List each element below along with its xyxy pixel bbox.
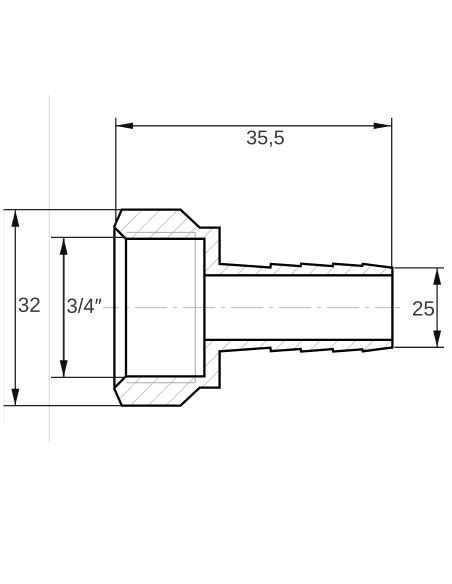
hex left face bbox=[113, 225, 115, 390]
body outline upper half: hex, collar and barb sawtooth bbox=[114, 210, 392, 268]
bore entrance chamfer bottom bbox=[115, 377, 126, 388]
arrowhead top of 25 dimension bbox=[433, 268, 441, 285]
arrowhead left of 35,5 dimension bbox=[115, 123, 133, 129]
arrowhead bottom of 25 dimension bbox=[433, 331, 441, 348]
barb bore bottom bbox=[204, 339, 392, 341]
barb bore top bbox=[204, 274, 392, 276]
body outline lower half bbox=[114, 348, 392, 406]
dimension text 3/4 inch bbox=[67, 298, 101, 313]
extension and dimension lines for 3/4 inch bbox=[51, 237, 127, 377]
extension and dimension lines for 32 bbox=[4, 210, 122, 406]
thread cavity bbox=[126, 239, 205, 377]
bore entrance chamfer top bbox=[115, 227, 126, 238]
arrowhead top of 3/4 dimension bbox=[60, 238, 68, 255]
arrowhead right of 35,5 dimension bbox=[374, 123, 392, 129]
barb end face bbox=[391, 267, 393, 349]
fitting body outline bbox=[114, 210, 392, 406]
dimension text 35,5 bbox=[247, 130, 284, 146]
centerline bbox=[103, 307, 400, 309]
dimension text 32 bbox=[19, 298, 40, 313]
artifact faint vertical line bbox=[48, 95, 50, 443]
arrowhead bottom of 3/4 dimension bbox=[60, 360, 68, 377]
extension and dimension lines for 25 bbox=[395, 268, 445, 347]
artifact faint vertical line left edge bbox=[3, 210, 5, 424]
arrowhead bottom of 32 dimension bbox=[11, 389, 19, 406]
extension and dimension lines for 35,5 bbox=[115, 118, 392, 267]
arrowhead top of 32 dimension bbox=[11, 210, 19, 227]
cavity left wall bbox=[125, 239, 127, 377]
dimension text 25 bbox=[413, 301, 434, 316]
thread major-diameter thin lines bbox=[127, 232, 196, 382]
